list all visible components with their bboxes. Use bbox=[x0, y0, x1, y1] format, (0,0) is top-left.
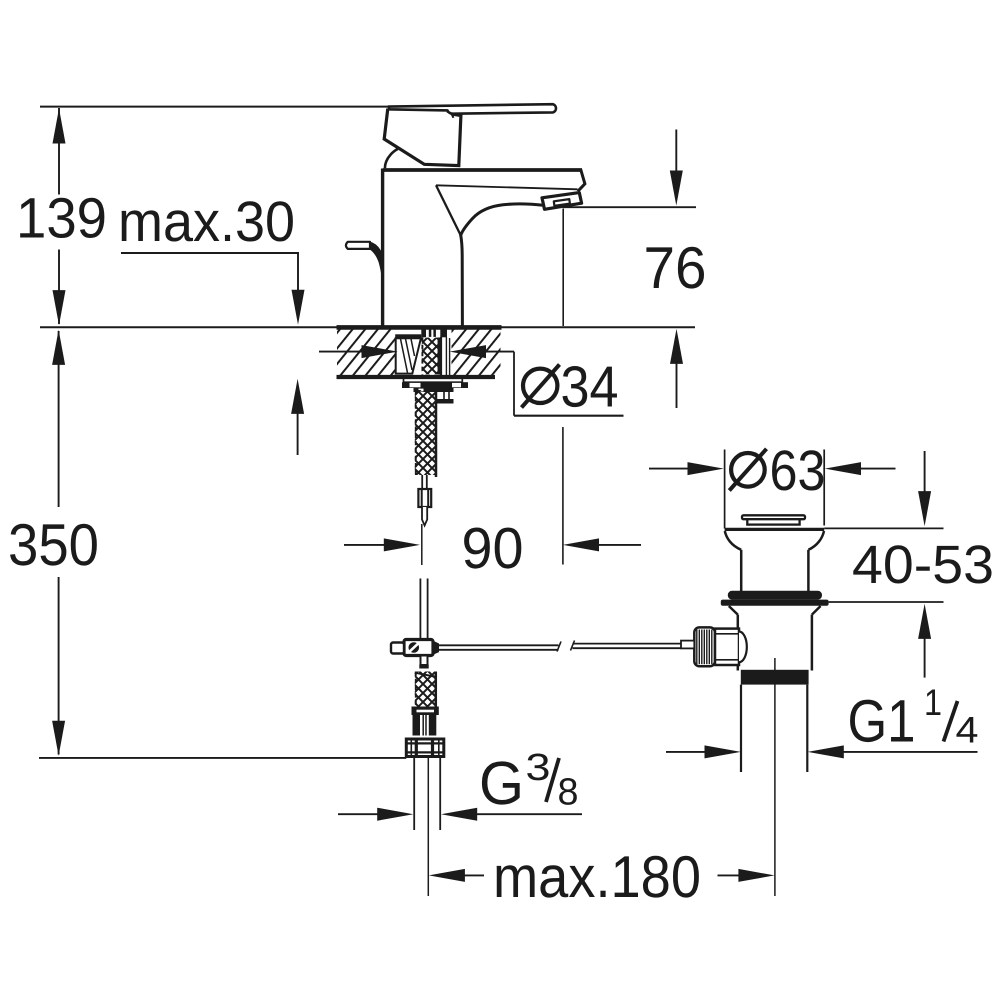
drain lower cylinder bbox=[737, 615, 740, 671]
drain flange trumpet bbox=[725, 531, 741, 550]
water stream extension line upper bbox=[562, 209, 564, 327]
dimension 90 extension line bbox=[421, 524, 423, 565]
hose stub upper bbox=[421, 475, 423, 489]
handle lever bar bbox=[389, 104, 556, 114]
spout underside curve bbox=[461, 204, 545, 236]
dimension line 139 bbox=[58, 108, 60, 195]
countertop deck line bbox=[40, 326, 695, 328]
countertop cross-section bottom edge bbox=[337, 375, 496, 379]
countertop hatching right bbox=[452, 330, 501, 376]
svg-text:4: 4 bbox=[956, 709, 979, 750]
svg-text:max.30: max.30 bbox=[118, 190, 295, 254]
spout underside contour bbox=[436, 185, 578, 189]
compression fitting band bbox=[412, 707, 439, 716]
hose stub tip bbox=[422, 507, 427, 526]
faucet body outline bbox=[381, 169, 384, 328]
label diameter 34 bbox=[523, 369, 557, 403]
dimension line G1 1/4 bbox=[666, 751, 706, 753]
svg-text:3: 3 bbox=[526, 747, 551, 789]
T-union block bbox=[404, 640, 433, 656]
svg-text:8: 8 bbox=[558, 771, 579, 813]
svg-text:G: G bbox=[479, 749, 524, 817]
braided supply hose bbox=[415, 390, 437, 475]
cartridge dome arc bbox=[385, 149, 398, 168]
drain tail pipe G1 1/4 bbox=[740, 685, 742, 772]
drain plug cap bbox=[742, 515, 805, 519]
water stream extension line lower bbox=[562, 427, 564, 565]
tail pipe G3/8 bbox=[413, 757, 415, 831]
rod break marks bbox=[557, 642, 561, 652]
dimension line max.180 bbox=[463, 874, 484, 876]
countertop hatching left bbox=[337, 330, 396, 376]
dimension line max.30 bbox=[121, 252, 299, 254]
mounting bracket bbox=[443, 392, 445, 400]
dimension line 40-53 bbox=[924, 451, 926, 493]
drain O-ring bbox=[728, 591, 822, 600]
leader diameter 34 bbox=[513, 352, 515, 416]
aerator outlet slot bbox=[554, 199, 570, 206]
drain rod connector block bbox=[715, 629, 739, 665]
drain centre extension line bbox=[774, 658, 776, 896]
T-union screw bbox=[409, 642, 420, 653]
dimension line 350 bbox=[58, 331, 60, 507]
mounting washer bbox=[404, 378, 463, 382]
horizontal rod left segment bbox=[439, 644, 559, 646]
horizontal rod right segment bbox=[573, 643, 682, 645]
dimension 139 top reference line bbox=[40, 106, 390, 108]
svg-text:G1: G1 bbox=[848, 687, 916, 754]
T-union right nipple bbox=[434, 642, 439, 655]
svg-text:350: 350 bbox=[8, 512, 99, 578]
spout funnel line bbox=[436, 185, 460, 234]
svg-text:1: 1 bbox=[924, 682, 942, 723]
svg-text:76: 76 bbox=[644, 235, 707, 301]
drain upper cylinder bbox=[740, 550, 743, 591]
dimension line 90 bbox=[344, 544, 386, 546]
G3/8 nut bbox=[406, 739, 444, 757]
drain knurled knob bbox=[694, 627, 715, 666]
connector ball bbox=[739, 632, 747, 663]
clamping wedge top bar bbox=[395, 334, 421, 338]
svg-text:40-53: 40-53 bbox=[852, 535, 994, 595]
handle base bbox=[384, 109, 461, 166]
dimension 40-53 reference lines bbox=[824, 527, 943, 529]
pull rod (pop-up lift rod) bbox=[346, 242, 370, 249]
body right edge bbox=[461, 235, 463, 327]
countertop cross-section top edge bbox=[337, 325, 502, 330]
compression fitting ribs bbox=[413, 715, 421, 736]
dimension 76 outlet reference line bbox=[563, 206, 696, 208]
label diameter 63 bbox=[731, 453, 765, 487]
base seal segments bbox=[421, 329, 426, 338]
dimension 63 extension lines bbox=[724, 450, 726, 529]
threaded shank braid bbox=[422, 338, 439, 375]
T-union left stub bbox=[391, 643, 404, 654]
dimension line 76 bbox=[675, 130, 677, 173]
drain body lower taper bbox=[729, 606, 738, 615]
drain bottom band bbox=[741, 670, 809, 685]
faucet centre extension line bbox=[427, 757, 429, 896]
pop-up vertical rod bbox=[419, 579, 421, 640]
handle hook joint bbox=[447, 112, 454, 118]
hose connector bbox=[418, 489, 431, 507]
dimension line diameter 34 bbox=[319, 351, 363, 353]
T-union bottom stub bbox=[421, 656, 428, 666]
dimension 350 bottom reference line bbox=[39, 757, 406, 759]
dimension line G 3/8 bbox=[338, 813, 379, 815]
drain flange shoulder bbox=[725, 528, 825, 531]
braided hose lower bbox=[415, 672, 437, 707]
wedge thread lines bbox=[401, 339, 408, 373]
clamping wedge bbox=[396, 338, 421, 373]
svg-text:63: 63 bbox=[770, 439, 826, 503]
mounting nut bbox=[402, 382, 468, 388]
nut lower step bbox=[414, 388, 454, 392]
dimension line diameter 63 bbox=[649, 468, 689, 470]
svg-text:90: 90 bbox=[462, 516, 524, 581]
svg-text:34: 34 bbox=[561, 355, 619, 420]
shank right channel lines bbox=[440, 337, 442, 376]
spout aerator bbox=[542, 193, 582, 210]
svg-text:max.180: max.180 bbox=[493, 844, 701, 910]
pop-up rod stub bbox=[681, 641, 694, 649]
svg-text:139: 139 bbox=[16, 187, 107, 251]
